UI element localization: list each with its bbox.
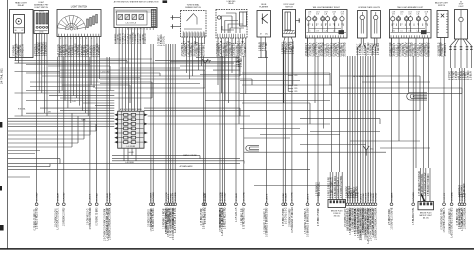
backup switch side hatch [437,13,439,15]
ignition switch inner frame [117,11,148,25]
stop light switch wires [284,37,293,47]
svg-text:0.75 BR0.75 BR0.: 0.75 BR0.75 BR0. [318,207,320,226]
svg-text:1.5 GY/B: 1.5 GY/B [244,192,246,201]
relay K1 body [14,15,25,34]
backup switch contact [441,14,444,18]
svg-text:1.5 BL/RD1.5: 1.5 BL/RD1.5 [445,42,447,56]
svg-text:2.5 RD2.5 RD2.: 2.5 RD2.5 RD2. [389,208,391,225]
svg-text:1.5 GY/BK1.5 GY/BK1: 1.5 GY/BK1.5 GY/BK1 [341,175,343,198]
tail light assembly left E1 [390,10,432,39]
svg-text:AT THE IGNITION / STARTER SWIT: AT THE IGNITION / STARTER SWITCH CONNECT… [114,1,159,4]
page edge mark 4 [0,225,4,231]
ignition switch wires [115,30,117,44]
ignition switch sub fuse [151,10,156,27]
dimmer switch left terminal 2 [171,26,181,28]
svg-text:24 TAIL 911: 24 TAIL 911 [0,68,3,84]
svg-text:1.5 BL/R: 1.5 BL/R [236,192,238,201]
svg-text:(BL 2X): (BL 2X) [423,218,429,220]
svg-text:30 15 X 31 50 P S 75: 30 15 X 31 50 P S 75 [127,29,145,31]
front light assembly S2 [34,11,49,34]
svg-text:2.5 RD2.: 2.5 RD2. [97,192,99,201]
svg-text:2.5: 2.5 [341,23,343,25]
lower bus wires [8,130,96,132]
svg-text:L: L [81,38,82,40]
svg-text:1.5 BL/R: 1.5 BL/R [58,192,60,201]
svg-text:1.5 BL/RD1.5 BL/RD1: 1.5 BL/RD1.5 BL/RD1 [335,175,337,198]
backup light switch S9 [437,11,448,38]
svg-text:L+B 2.5: L+B 2.5 [90,193,92,201]
svg-text:2.5 R: 2.5 R [341,12,344,14]
stop lamp funnel wires [451,39,472,46]
svg-text:1.5: 1.5 [308,23,310,25]
svg-text:2.5 RD2.5 R: 2.5 RD2.5 R [145,33,147,44]
front light assembly elements [36,13,38,24]
front light assembly wires [36,34,38,57]
svg-text:0.75 BR0.: 0.75 BR0. [241,57,243,67]
tail light right wires [307,38,309,56]
license plate light E3 [358,11,368,39]
light switch wire continuations [58,42,60,93]
svg-text:AT MAIN HARN: AT MAIN HARN [180,165,193,168]
connector T2 feed wires [420,168,422,202]
svg-text:2.5 RD2.5 RD: 2.5 RD2.5 RD [345,42,347,56]
svg-text:DIMMER SWITCH: DIMMER SWITCH [185,7,201,9]
svg-text:LICENSE PLATE LIGHTS: LICENSE PLATE LIGHTS [358,6,381,9]
turn signal dimmer switch S5 [181,11,207,38]
load relay coil circle [218,16,221,19]
svg-text:1.5 BL/R: 1.5 BL/R [205,192,207,201]
svg-text:0.75 BR0.75 BR0: 0.75 BR0.75 BR0 [97,207,99,226]
svg-text:1.5 GN/YE1.5 GN/YE1.5: 1.5 GN/YE1.5 GN/YE1.5 [264,208,266,234]
svg-text:L+B 2.5 GYL+B 2.5 GYL+B: L+B 2.5 GYL+B 2.5 GYL+B [373,209,375,238]
svg-text:L+B 2.5 RD: L+B 2.5 RD [101,71,111,73]
svg-text:L+B 2.5 GYL+B 2.5 GY: L+B 2.5 GYL+B 2.5 GY [425,172,427,196]
svg-text:1.5 GY/BK1.5: 1.5 GY/BK1.5 [203,42,205,57]
wire merge junction A [202,59,208,70]
svg-text:LIGHT SWITCH: LIGHT SWITCH [71,6,88,8]
svg-text:1.5: 1.5 [333,14,335,16]
svg-text:0.75 RD/GN0.75 RD: 0.75 RD/GN0.75 RD [442,208,444,229]
fuse block output wires [123,148,125,161]
svg-text:0.75 BR0: 0.75 BR0 [153,191,155,201]
svg-text:1.5: 1.5 [333,30,335,32]
ignition switch contacts [118,15,123,20]
tail light assembly right E2 [306,10,348,39]
svg-text:0.5 BK/RD0.5 BK/RD0.5 BK/: 0.5 BK/RD0.5 BK/RD0.5 BK/ [267,207,269,237]
light switch rotary fan [57,15,86,30]
svg-text:0.75: 0.75 [392,14,395,16]
svg-text:1.5 BL/RD1: 1.5 BL/RD1 [356,186,358,198]
svg-text:0.75 RD/GN0.75 RD/GN: 0.75 RD/GN0.75 RD/GN [419,171,421,196]
svg-text:1.5 BL/R: 1.5 BL/R [471,71,473,80]
svg-text:1.5: 1.5 [409,23,411,25]
svg-text:0.5 BK/RD0.5 BK/RD0.: 0.5 BK/RD0.5 BK/RD0. [428,172,430,196]
tail light left wires [391,38,393,56]
svg-text:0.75 BR0.75 BR: 0.75 BR0.75 BR [201,208,203,225]
svg-text:0.75 RD/GN0: 0.75 RD/GN0 [464,183,466,197]
mesh risers upper [126,61,128,64]
svg-text:L+B 2.5: L+B 2.5 [266,193,268,201]
svg-text:0.75 BR0.75 BR0.: 0.75 BR0.75 BR0. [222,208,224,227]
load reduction relay box K2 [216,10,247,39]
svg-text:FLASHER: FLASHER [259,5,268,8]
svg-text:0.5 BK/R: 0.5 BK/R [391,192,393,201]
svg-text:L+B 2.5 GYL+: L+B 2.5 GYL+ [319,181,321,196]
svg-text:0.75 BR0.75: 0.75 BR0.75 [293,41,295,54]
bulb flasher contact symbol [262,14,268,25]
page edge mark 3 [0,186,2,191]
svg-text:0.75 RD/: 0.75 RD/ [266,42,268,51]
svg-text:1.5: 1.5 [417,23,419,25]
fuse feed wires from ignition [118,44,120,111]
stop light wire tags [289,75,294,77]
svg-text:0.75 RD/: 0.75 RD/ [109,192,111,201]
svg-text:0.5 BK/RD0.5 BK/RD0.5: 0.5 BK/RD0.5 BK/RD0.5 [449,208,451,234]
svg-text:BACKUP LIGHT: BACKUP LIGHT [420,214,432,217]
svg-text:0.75 RD/: 0.75 RD/ [64,192,66,201]
svg-text:(RD 24): (RD 24) [334,216,340,218]
load relay inner element [240,12,247,26]
ignition switch pin row [115,28,117,31]
svg-text:1.5 GN/YE1.5 GN/YE: 1.5 GN/YE1.5 GN/YE [391,207,393,229]
svg-text:L+B 2.5 GYL+B 2.5 GYL+B 2.5: L+B 2.5 GYL+B 2.5 GYL+B 2.5 [107,208,109,241]
svg-text:SWITCH: SWITCH [285,6,293,8]
connector T2 feed stroke [421,194,424,201]
front light assembly wire continuations [38,57,40,91]
light switch stepped contacts [87,19,89,28]
svg-text:0.5 BK/RD0.5 BK/RD: 0.5 BK/RD0.5 BK/RD [90,207,92,229]
svg-text:RELAY: RELAY [18,4,25,7]
svg-text:1.5 R: 1.5 R [324,12,327,14]
svg-text:2.5 RD2.5 RD2.5 RD: 2.5 RD2.5 RD2.5 RD [37,207,39,229]
svg-text:L 0.5 GYL 0.5 G: L 0.5 GYL 0.5 G [205,207,207,224]
svg-text:L+B: L+B [324,30,327,32]
bottom page border [0,248,474,250]
svg-text:1.5 BL/RD1.5 BL/RD1.: 1.5 BL/RD1.5 BL/RD1. [153,207,155,230]
relay K1 pin wires [15,33,17,57]
middle bus wires [26,90,114,92]
svg-text:L 0.5 GYL 0.5 GY: L 0.5 GYL 0.5 GY [151,208,153,226]
staircase risers [95,124,97,131]
svg-text:0.75 RD/: 0.75 RD/ [375,192,377,201]
svg-text:L 0.5 GYL 0.5 GYL 0.: L 0.5 GYL 0.5 GYL 0. [58,207,60,229]
svg-text:1.5 RD/BK1.5 RD/BK: 1.5 RD/BK1.5 RD/BK [464,207,466,229]
license plate wires [358,38,377,94]
bulb flasher wires [260,37,262,46]
svg-text:1.5 RD/B: 1.5 RD/B [451,192,453,201]
svg-text:1.5 RD/BK1.5 RD/BK1.: 1.5 RD/BK1.5 RD/BK1. [422,172,424,196]
stop lamp E5 [455,10,468,40]
svg-text:L+B 2.5 GYL+B 2.5 GYL+B 2: L+B 2.5 GYL+B 2.5 GYL+B 2 [452,207,454,238]
svg-text:1.5 B: 1.5 B [400,12,403,14]
svg-text:LIGHT SWITCH: LIGHT SWITCH [35,7,49,9]
svg-text:1.5 RD/BK1.5 RD/BK1.5 RD/BK: 1.5 RD/BK1.5 RD/BK1.5 RD/BK [110,207,112,240]
svg-text:1.5 GY/BK1.5 GY/: 1.5 GY/BK1.5 GY/ [55,208,57,227]
sheet reference tab [163,0,168,3]
svg-text:1.5 GN/YE1.5 GN/YE1.5: 1.5 GN/YE1.5 GN/YE1.5 [305,208,307,234]
svg-text:0.75 BR0.75 BR0.75: 0.75 BR0.75 BR0.75 [332,177,334,198]
svg-text:0.5: 0.5 [425,23,427,25]
svg-text:1.5 GY/B: 1.5 GY/B [292,192,294,201]
stop light switch side stub [296,20,300,22]
svg-text:2.5 RD2.5 R: 2.5 RD2.5 R [22,44,24,57]
svg-text:L+B: L+B [417,30,420,32]
svg-text:1.5 GN/YE1.5 G: 1.5 GN/YE1.5 G [88,208,90,225]
svg-text:1.5 GY/BK1.5 GY/BK1.5: 1.5 GY/BK1.5 GY/BK1.5 [444,207,446,233]
svg-text:0.75 BR0.75 BR0.75: 0.75 BR0.75 BR0.75 [34,209,36,231]
stop lamp connector ticks [450,46,452,53]
svg-text:LIGHT: LIGHT [459,6,464,8]
svg-text:L+B 4W: L+B 4W [128,152,134,154]
svg-text:HEAD LIGHT: HEAD LIGHT [15,1,28,4]
light switch wires [58,37,60,43]
svg-text:SWITCH: SWITCH [438,5,446,7]
svg-text:L+B: L+B [324,14,327,16]
relay K1 outer boundary [10,10,34,58]
svg-text:1.5 BL/R: 1.5 BL/R [285,192,287,201]
svg-text:0.75: 0.75 [316,14,319,16]
light switch pin row [58,34,60,37]
svg-text:1.5 GN/Y: 1.5 GN/Y [36,192,38,202]
svg-text:2.5 R: 2.5 R [392,12,395,14]
svg-text:0.5 B: 0.5 B [425,12,428,14]
svg-text:1.5 GN/Y: 1.5 GN/Y [224,192,226,202]
svg-text:L+B 2.5: L+B 2.5 [307,193,309,201]
svg-text:1.5 RD/B: 1.5 RD/B [175,192,177,201]
svg-text:L+B 2.5 GYL+B: L+B 2.5 GYL+B [126,23,137,25]
load relay wires [217,38,219,44]
svg-text:2.5 RD2.5 RD2.5 RD: 2.5 RD2.5 RD2.5 RD [328,177,330,198]
bridge plug connector T2 backup [418,202,434,210]
svg-text:L+B: L+B [417,14,420,16]
stop light switch plunger [285,12,291,30]
svg-text:1.5 RD/BK1.5 R: 1.5 RD/BK1.5 R [242,208,244,225]
svg-text:1.5 GN/YE1: 1.5 GN/YE1 [378,42,380,55]
svg-text:0.5 BK/RD0.5 BK/R: 0.5 BK/RD0.5 BK/R [173,208,175,228]
svg-text:0.75: 0.75 [316,30,319,32]
svg-text:0.75 B: 0.75 B [39,11,43,13]
fuse rows [124,113,128,116]
light switch S1 [57,10,101,37]
svg-text:L 0.5 GYL 0.5 GYL 0: L 0.5 GYL 0.5 GYL 0 [338,177,340,198]
load relay wire continuations [217,44,219,85]
left page border [7,0,9,249]
ignition switch box X1 [114,8,157,28]
stop light switch hatch base [284,31,296,34]
svg-text:1.5: 1.5 [425,14,427,16]
svg-text:1.5 RD/BK1.5 RD/: 1.5 RD/BK1.5 RD/ [290,208,292,227]
svg-text:2.5 RD2.5 RD2.5 RD: 2.5 RD2.5 RD2.5 RD [225,207,227,229]
dimmer switch lever [187,14,198,25]
upper bus wires [196,57,238,59]
svg-text:2.5: 2.5 [392,23,394,25]
svg-text:0.75: 0.75 [341,14,344,16]
dimmer switch pin row [182,32,184,37]
svg-text:0.5 BK/RD0.5: 0.5 BK/RD0.5 [46,41,48,56]
hairpin loop bundle mid [246,146,259,151]
svg-text:1.5: 1.5 [317,23,319,25]
wire terminations with labels [34,34,466,244]
svg-text:87: 87 [22,30,24,32]
relay K1 wire continuations [15,57,17,61]
wire merge junction B [363,146,369,156]
svg-text:L 0.5 GYL: L 0.5 GYL [163,35,165,46]
hairpin loop bundle right [407,93,427,101]
svg-text:0.75 RD/GN0.75 RD/: 0.75 RD/GN0.75 RD/ [244,207,246,229]
svg-text:1.5 RD/BK1.5 RD/B: 1.5 RD/BK1.5 RD/B [355,208,357,229]
connector T24 feed wires [329,172,331,200]
svg-text:49a: 49a [265,33,268,35]
svg-text:L 0.5 GYL 0.5: L 0.5 GYL 0.5 [236,207,238,222]
svg-text:1.5 BL/: 1.5 BL/ [39,32,44,34]
stop light switch wire continuations [283,47,285,103]
svg-text:RELAY: RELAY [228,2,234,5]
license plate light E4 [371,11,381,39]
svg-text:TAIL LIGHT ASSEMBLY RIGHT: TAIL LIGHT ASSEMBLY RIGHT [313,6,341,9]
svg-text:1.5 B: 1.5 B [308,12,311,14]
svg-text:1.5 R: 1.5 R [416,12,419,14]
svg-text:49: 49 [260,33,262,35]
svg-text:0.75 BR0: 0.75 BR0 [413,191,415,201]
svg-text:1.5 BL/RD1.5 BL: 1.5 BL/RD1.5 BL [413,207,415,225]
stop lamp bulb [460,10,462,17]
backup switch wires [440,38,442,57]
svg-text:0.5: 0.5 [333,23,335,25]
svg-text:1.5 RD/BK1.5 RD/BK1.5 RD/BK: 1.5 RD/BK1.5 RD/BK1.5 RD/BK [375,207,377,240]
svg-text:30: 30 [15,30,17,32]
bridge plug connector T24 [328,200,346,208]
stop lamp branch wires [450,52,452,68]
svg-text:0.5 BK/RD0.5: 0.5 BK/RD0.5 [429,42,431,57]
load relay pin row [217,34,219,38]
svg-text:1.5: 1.5 [401,23,403,25]
svg-text:L+B RD/BK: L+B RD/BK [126,146,136,148]
svg-text:TAIL LIGHT ASSEMBLY LEFT: TAIL LIGHT ASSEMBLY LEFT [397,6,424,9]
svg-text:0.75: 0.75 [408,14,411,16]
svg-text:L+B 2.5 GYL+B 2.5 GYL: L+B 2.5 GYL+B 2.5 GYL [175,207,177,233]
svg-text:L+B: L+B [73,101,76,103]
stop light switch S8 [283,10,296,38]
load relay internal wiring [222,13,245,33]
dimmer switch wires [183,37,185,44]
bulb flasher wire continuations [260,46,262,58]
dimmer switch left terminal 1 [171,17,181,19]
dimmer switch wire continuations [186,44,188,73]
svg-text:0.5 B: 0.5 B [332,12,335,14]
svg-text:L 0.5 GYL 0.5 G: L 0.5 GYL 0.5 G [285,207,287,224]
bulb flasher K3 [257,11,271,38]
svg-text:0.75: 0.75 [409,30,412,32]
svg-text:0.5 BK/RD0.5 BK/RD0.5 BK/: 0.5 BK/RD0.5 BK/RD0.5 BK/ [307,207,309,237]
svg-text:1.5 RD/BK1.5 RD/: 1.5 RD/BK1.5 RD/ [64,207,66,226]
fuse panel block [118,112,144,149]
svg-text:1.5: 1.5 [325,23,327,25]
svg-text:0.75: 0.75 [392,30,395,32]
svg-text:L 0.5 GY: L 0.5 GY [444,192,446,201]
svg-text:L+B 2.5 GYL+B: L+B 2.5 GYL+B [462,209,464,226]
svg-text:MAIN 4.5 RD/BK: MAIN 4.5 RD/BK [183,154,197,157]
page edge mark 2 [0,122,2,128]
svg-text:0.75 RD/GN0.75 RD/GN: 0.75 RD/GN0.75 RD/GN [292,207,294,232]
